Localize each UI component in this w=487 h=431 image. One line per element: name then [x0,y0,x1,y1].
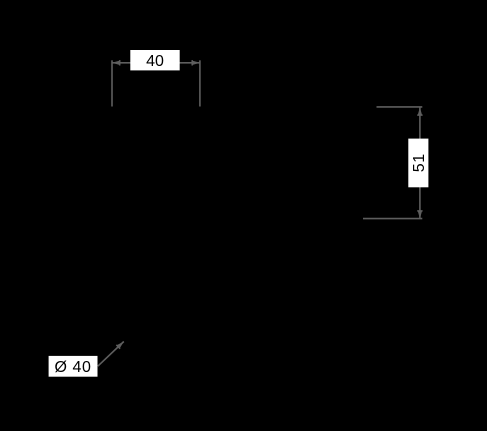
svg-text:51: 51 [411,153,428,172]
svg-text:40: 40 [146,53,164,70]
svg-text:Ø 40: Ø 40 [55,359,92,376]
